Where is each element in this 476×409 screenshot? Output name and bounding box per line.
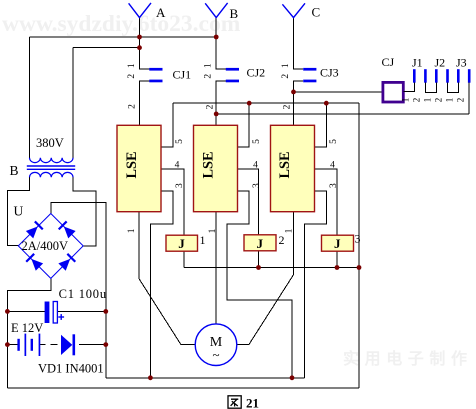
wire LSE3 pin3 to +rail: [305, 191, 327, 378]
svg-text:21: 21: [246, 396, 259, 409]
wire secondary right lead: [73, 177, 96, 246]
svg-text:5: 5: [329, 139, 339, 144]
svg-text:实用电子制作: 实用电子制作: [343, 349, 473, 368]
wire LSE1 pin2: [140, 81, 150, 125]
wire LSE1 pin1 to motor: [139, 212, 195, 345]
svg-text:~: ~: [212, 347, 219, 362]
svg-text:3: 3: [252, 183, 262, 188]
svg-text:1: 1: [401, 98, 411, 103]
svg-text:2: 2: [204, 74, 214, 79]
wire bridge minus output: [7, 278, 50, 388]
svg-text:2: 2: [281, 74, 291, 79]
wire primary right lead: [72, 48, 74, 158]
svg-text:2: 2: [206, 104, 216, 109]
relay coil CJ: [383, 82, 403, 102]
svg-text:J: J: [334, 236, 341, 251]
contact J3 bars: [457, 69, 471, 83]
wire LSE1 pin3 to +rail: [150, 191, 172, 378]
svg-text:380V: 380V: [36, 136, 64, 150]
wire LSE3 pin4 to J3: [315, 169, 338, 235]
capacitor C1: [45, 302, 50, 324]
svg-text:J: J: [257, 236, 264, 251]
svg-text:1: 1: [284, 228, 294, 233]
wire J1 bottom pin: [183, 251, 185, 267]
block LSE1: [117, 125, 161, 211]
svg-text:2: 2: [434, 98, 444, 103]
svg-text:1: 1: [423, 98, 433, 103]
wire VD1 to rail: [86, 344, 106, 346]
svg-text:CJ3: CJ3: [320, 66, 339, 80]
svg-text:2: 2: [456, 98, 466, 103]
svg-text:2: 2: [283, 104, 293, 109]
svg-text:C1 100u: C1 100u: [59, 287, 107, 301]
svg-text:B: B: [10, 163, 19, 178]
wire bridge plus output: [51, 203, 106, 378]
wire top bus 1: [29, 36, 216, 38]
wire E to VD1: [39, 344, 46, 346]
svg-text:3: 3: [355, 232, 361, 246]
diode VD1: [61, 335, 72, 355]
svg-text:LSE: LSE: [277, 151, 293, 178]
antenna A: [129, 3, 151, 18]
svg-text:E 12V: E 12V: [11, 321, 43, 335]
svg-text:U: U: [14, 204, 24, 219]
svg-text:2A/400V: 2A/400V: [22, 239, 69, 253]
bridge diode upper-right: [58, 221, 76, 239]
wire J3 bottom pin: [336, 251, 338, 267]
bridge diode upper-left: [26, 221, 44, 239]
svg-text:LSE: LSE: [201, 151, 217, 178]
wire LSE2 pin2: [216, 81, 226, 125]
relay J2 box: [244, 235, 276, 251]
svg-text:J1: J1: [412, 56, 423, 70]
svg-text:1: 1: [204, 63, 214, 68]
svg-text:1: 1: [208, 228, 218, 233]
svg-text:LSE: LSE: [124, 151, 140, 178]
wire dash 2: [79, 344, 86, 346]
capacitor CJ2: [226, 68, 239, 82]
svg-text:2: 2: [279, 233, 285, 247]
svg-text:CJ2: CJ2: [247, 66, 266, 80]
block LSE2: [194, 125, 238, 211]
svg-text:3: 3: [329, 183, 339, 188]
wire LSE2 pin5: [238, 103, 250, 147]
antenna B: [205, 3, 227, 18]
svg-text:2: 2: [127, 104, 137, 109]
wire contact J3 down: [468, 83, 470, 114]
wire antenna C mast: [294, 17, 304, 70]
wire LSE1 pin5: [161, 103, 173, 147]
svg-text:5: 5: [252, 139, 262, 144]
svg-text:A: A: [156, 5, 166, 20]
motor M: [195, 324, 237, 366]
svg-text:1: 1: [200, 233, 206, 247]
wire antenna A mast: [140, 17, 150, 70]
svg-text:VD1 IN4001: VD1 IN4001: [38, 362, 104, 376]
wire E row left: [7, 344, 17, 346]
contact J2 bars: [435, 69, 449, 83]
svg-text:J2: J2: [435, 56, 446, 70]
svg-text:CJ: CJ: [382, 55, 395, 69]
svg-text:1: 1: [127, 63, 137, 68]
svg-text:4: 4: [330, 161, 335, 171]
relay J3 box: [322, 235, 354, 251]
svg-text:www.sydzdiy.6to23.com: www.sydzdiy.6to23.com: [2, 11, 241, 37]
svg-text:J3: J3: [456, 56, 467, 70]
wire LSE3 pin2: [294, 81, 304, 125]
capacitor CJ1: [149, 68, 162, 82]
svg-text:1: 1: [445, 98, 455, 103]
transformer T1 primary winding: [30, 158, 74, 163]
wire contact J1 to J2: [425, 83, 436, 93]
wire C1 row left: [7, 310, 44, 312]
svg-text:B: B: [230, 6, 239, 21]
bridge rectifier U diamond: [18, 214, 83, 279]
capacitor CJ3: [303, 68, 316, 82]
wire left rail upper: [7, 177, 29, 246]
svg-text:4: 4: [253, 161, 258, 171]
wire contact return: [216, 113, 469, 115]
svg-text:J: J: [178, 236, 185, 251]
wire CJ to contact J1: [404, 83, 415, 92]
svg-text:CJ1: CJ1: [173, 68, 192, 82]
svg-text:2: 2: [412, 98, 422, 103]
wire LSE3 pin1 to motor: [237, 212, 294, 345]
wire LSE3 pin5: [315, 103, 327, 147]
battery E: [17, 334, 40, 356]
svg-text:4: 4: [175, 161, 180, 171]
wire CJ coil feed: [294, 91, 383, 93]
svg-text:5: 5: [175, 139, 185, 144]
wire LSE2 pin3 to +rail: [227, 191, 292, 378]
wire dash 1: [51, 344, 58, 346]
wire C1 row right: [57, 310, 105, 312]
wire antenna B mast: [216, 17, 226, 70]
svg-text:1: 1: [281, 63, 291, 68]
svg-text:C: C: [312, 5, 321, 20]
wire pin5 bus: [173, 102, 359, 104]
wire LSE2 pin1 to motor: [215, 212, 217, 324]
wire bottom ground bus: [7, 387, 359, 389]
svg-text:3: 3: [175, 183, 185, 188]
relay J1 box: [166, 235, 198, 251]
svg-text:1: 1: [127, 228, 137, 233]
wire LSE2 pin4 to J2: [238, 169, 259, 235]
transformer T1 secondary winding: [30, 172, 74, 177]
wire LSE1 pin4 to J1: [161, 169, 184, 235]
contact J1 bars: [413, 69, 427, 83]
wire primary left lead: [28, 37, 30, 158]
antenna C: [282, 3, 305, 17]
wire contact J2 to J3: [448, 83, 459, 93]
bridge diode lower-left: [25, 253, 43, 271]
transformer T1 core: [27, 165, 75, 167]
svg-text:2: 2: [127, 74, 137, 79]
block LSE3: [271, 125, 315, 211]
label figure 21: [228, 396, 241, 408]
wire J2 bottom pin: [258, 251, 260, 268]
wire top bus 2: [73, 47, 140, 49]
wire ground right rail: [358, 103, 360, 388]
wire relay coil return bus: [184, 267, 359, 269]
bridge diode lower-right: [58, 253, 76, 271]
wire +12V rail: [106, 377, 305, 379]
